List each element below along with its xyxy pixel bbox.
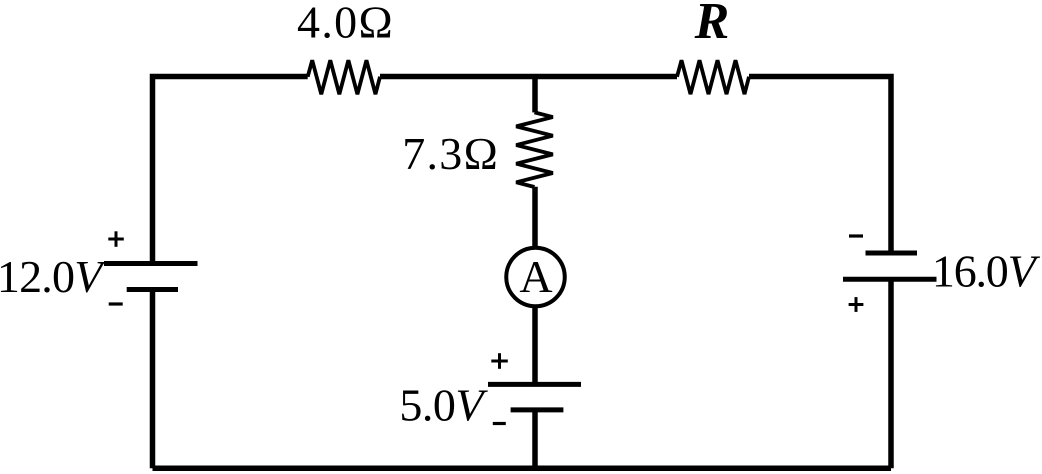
wire top-left segment xyxy=(153,77,308,267)
svg-text:16.0V: 16.0V xyxy=(932,246,1041,297)
battery V3 minus sign xyxy=(849,234,863,237)
wire top-middle segment xyxy=(380,74,677,80)
battery V2 plus sign xyxy=(491,353,508,369)
battery V1 minus sign xyxy=(109,302,123,305)
battery V1 12.0V short plate xyxy=(127,287,178,292)
svg-text:12.0V: 12.0V xyxy=(0,251,107,302)
battery V3 16.0V short plate xyxy=(866,251,918,256)
wire top-right segment xyxy=(749,77,891,254)
battery V3 16.0V long plate xyxy=(843,277,937,282)
wire bottom segment xyxy=(153,466,892,472)
svg-text:5.0V: 5.0V xyxy=(399,379,488,430)
wire middle-branch top stub xyxy=(532,77,538,113)
battery V2 minus sign xyxy=(493,422,506,425)
battery V2 5.0V short plate xyxy=(511,407,564,412)
svg-text:7.3Ω: 7.3Ω xyxy=(402,128,499,179)
battery V1 12.0V long plate xyxy=(104,261,198,266)
svg-text:4.0Ω: 4.0Ω xyxy=(297,0,394,48)
wire left battery lower stub xyxy=(150,290,156,468)
wire right battery lower stub xyxy=(888,279,894,468)
wire middle battery-to-bottom xyxy=(532,410,538,468)
wire middle resistor-to-ammeter xyxy=(532,187,538,250)
ammeter A1 circle xyxy=(506,248,565,307)
resistor R2 "R" zigzag xyxy=(677,60,749,94)
svg-text:R: R xyxy=(694,0,730,50)
battery V2 5.0V long plate xyxy=(488,382,581,387)
resistor R3 7.3ohm vertical zigzag xyxy=(516,112,553,187)
resistor R1 4.0ohm zigzag xyxy=(308,60,380,94)
svg-text:A: A xyxy=(519,251,552,302)
wire middle ammeter-to-battery xyxy=(532,304,538,383)
battery V3 plus sign xyxy=(849,297,864,312)
battery V1 plus sign xyxy=(108,231,124,247)
